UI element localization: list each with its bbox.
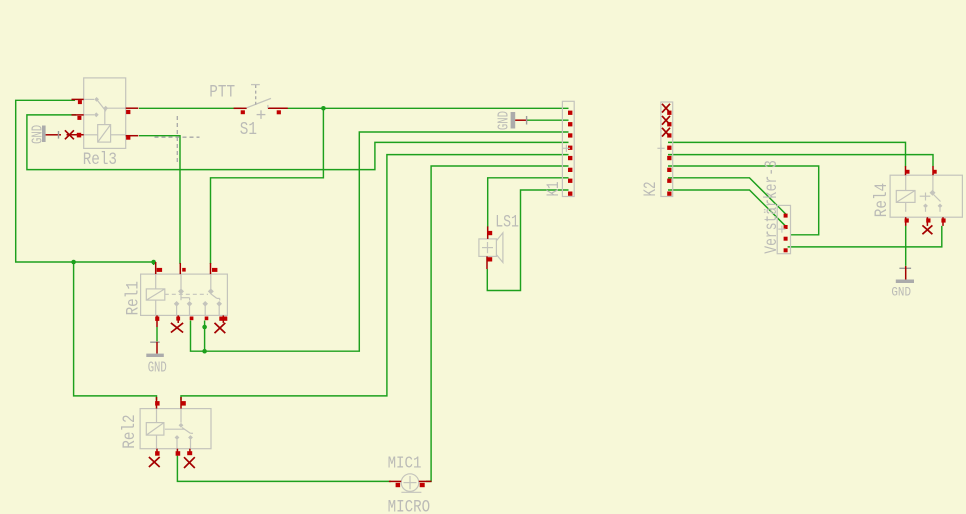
connector K1 pin 7 bbox=[568, 179, 572, 183]
unconnected marker X at Rel2 bottom pin3 bbox=[184, 457, 195, 468]
node junction at Rel1 pin1 bbox=[151, 260, 156, 265]
unconnected marker X at K2 pin3 bbox=[662, 128, 670, 137]
wire net N7: K1 pin7 left, down to LS1 top pin bbox=[488, 178, 569, 227]
svg-text:Rel1: Rel1 bbox=[123, 281, 143, 315]
connector K2 pin 2 bbox=[667, 122, 671, 126]
unconnected marker X at Rel1 bottom pin5 bbox=[215, 323, 226, 333]
svg-text:S1: S1 bbox=[240, 118, 257, 139]
K2 pin4 origin cross bbox=[657, 145, 664, 152]
svg-text:Rel4: Rel4 bbox=[872, 183, 892, 217]
Verstaerker-3 pin2 origin cross bbox=[778, 226, 785, 233]
node junction where pin4 wire meets N3 bbox=[202, 349, 207, 354]
relay Rel1 interior bbox=[156, 274, 222, 315]
label MIC1 bbox=[388, 454, 422, 473]
label Rel3 bbox=[83, 150, 117, 170]
svg-text:Rel2: Rel2 bbox=[119, 414, 139, 448]
ground GND left of Rel3 bbox=[42, 126, 61, 143]
relay Rel4 top pin1 bbox=[905, 166, 909, 175]
connector K1 pin 2 bbox=[568, 122, 572, 126]
relay Rel2 top pin2 bbox=[181, 397, 186, 409]
wire net GND: Rel4 bottom pin1 down to GND bbox=[905, 226, 907, 266]
wire net N4: K1 pin4 left, down, left, up to Rel3 pin B bbox=[27, 115, 569, 170]
wire net K2-4: K2 pin4 right, down to Rel4 top pin1 bbox=[668, 142, 906, 166]
connector K2 pin 1 bbox=[667, 111, 671, 115]
relay Rel2 bottom pin2 bbox=[176, 449, 181, 456]
K1 pin4 origin cross bbox=[563, 145, 570, 152]
wire net N10: Rel3 pin E right, down to Rel1 top pin2 bbox=[139, 136, 180, 264]
wire net N_PTT row1: S1 right pin to K1 pin1 bbox=[281, 107, 569, 109]
relay Rel2 top pin1 bbox=[155, 397, 160, 409]
label GND below Rel1 bbox=[148, 359, 167, 376]
wire net N_PTT: Rel3 pin D to S1 left pin bbox=[139, 107, 242, 109]
node junction at S1 output bbox=[321, 106, 326, 111]
relay Rel1 coil bbox=[146, 289, 165, 300]
unconnected marker X at Rel1 bottom pin2 bbox=[171, 323, 183, 333]
amplifier Verstaerker-3 pin 4 bbox=[784, 248, 788, 252]
wire net N3: K1 pin3 left, down, left to Rel1 bottom pin3 bbox=[191, 132, 569, 351]
amplifier Verstaerker-3 body bbox=[777, 205, 790, 253]
microphone MIC1 left pin bbox=[389, 481, 401, 487]
dashed line cross near Rel3 pin E bbox=[155, 116, 200, 163]
label PTT bbox=[209, 82, 235, 102]
wire net N2: GND cap to K1 pin2 bbox=[527, 119, 569, 121]
relay Rel4 bottom pin1 bbox=[905, 217, 909, 226]
relay Rel1 top pin2 bbox=[180, 263, 185, 274]
relay Rel1 bottom pin1 bbox=[155, 315, 159, 327]
relay Rel1 bottom pin5 bbox=[219, 315, 227, 323]
connector K1 body bbox=[562, 101, 574, 196]
connector K1 pin 4 bbox=[568, 146, 572, 150]
relay Rel1 bottom pin2 bbox=[176, 315, 180, 323]
connector K2 pin 4 bbox=[667, 146, 671, 150]
connector K1 pin 1 bbox=[568, 111, 572, 115]
relay Rel2 interior bbox=[157, 409, 194, 449]
unconnected marker X at K2 pin2 bbox=[662, 116, 670, 125]
wire net N_PTT branch: junction down, left, down to Rel1 top pin3 bbox=[211, 108, 324, 264]
connector K2 pin 8 bbox=[667, 192, 671, 196]
relay Rel3 pin A bbox=[72, 99, 84, 104]
wire net K2-6: K2 pin6 right, down, left to amplifier pin3 bbox=[668, 166, 819, 235]
relay Rel2 bottom pin3 bbox=[187, 449, 192, 456]
label LS1 bbox=[495, 212, 519, 232]
connector K2 pin 5 bbox=[667, 156, 671, 160]
ground GND below Rel1 bbox=[146, 327, 164, 357]
unconnected marker X at Rel4 bottom pin2 bbox=[922, 225, 932, 234]
microphone MIC1 body bbox=[401, 474, 421, 492]
wire net N5: K1 pin5 left, down, left to Rel2 top pin2 bbox=[181, 155, 569, 400]
wire net N13: Rel2 bottom pin2 down, right to MIC1 left pin bbox=[177, 456, 391, 482]
label GND at K1 bbox=[495, 111, 512, 130]
relay Rel3 pin C bbox=[67, 133, 84, 138]
switch S1 lever bbox=[247, 98, 271, 108]
svg-text:Rel3: Rel3 bbox=[83, 150, 117, 170]
svg-text:GND: GND bbox=[891, 285, 911, 300]
microphone MIC1 right pin bbox=[419, 481, 432, 487]
label Rel2 bbox=[119, 414, 139, 448]
connector K1 pin 6 bbox=[568, 168, 572, 172]
label Rel4 bbox=[872, 183, 892, 217]
relay Rel2 bottom pin1 bbox=[155, 449, 160, 456]
wire net N9: Rel3 pin A left, down, right to Rel1 top pin1 bbox=[16, 100, 154, 265]
switch S1 left pin bbox=[234, 108, 247, 114]
relay Rel1 top pin3 bbox=[211, 263, 218, 274]
ground GND with cap at K1 pin2 bbox=[511, 112, 528, 129]
amplifier Verstaerker-3 pin 1 bbox=[784, 214, 788, 218]
wire net N3 stub: Rel1 bottom pin4 down to N3 bbox=[204, 321, 206, 352]
svg-text:K1: K1 bbox=[543, 182, 564, 197]
svg-text:MICRO: MICRO bbox=[388, 497, 431, 514]
relay Rel4 interior bbox=[906, 175, 943, 212]
wire net K2-8: K2 pin8 right, diagonal to amplifier pin2 bbox=[668, 190, 786, 226]
relay Rel1 body bbox=[141, 274, 228, 315]
relay Rel3 pin D bbox=[126, 108, 139, 114]
wire net N6: K1 pin6 left, down to MIC1 right pin bbox=[426, 166, 569, 481]
speaker LS1 bottom pin bbox=[487, 256, 492, 269]
relay Rel4 top pin2 bbox=[933, 166, 937, 175]
unconnected marker X at Rel3 pin C bbox=[65, 130, 74, 139]
svg-text:GND: GND bbox=[495, 111, 512, 130]
relay Rel2 body bbox=[140, 409, 211, 449]
unconnected marker X at K2 pin1 bbox=[662, 104, 670, 113]
label K2 bbox=[640, 182, 661, 197]
svg-text:K2: K2 bbox=[640, 182, 661, 197]
relay Rel3 pin E bbox=[126, 136, 139, 140]
unconnected marker X at Rel2 bottom pin1 bbox=[149, 457, 160, 467]
relay Rel4 bottom pin2 bbox=[926, 217, 930, 226]
connector K1 pin 3 bbox=[568, 133, 572, 137]
svg-text:GND: GND bbox=[148, 359, 167, 376]
svg-text:GND: GND bbox=[29, 125, 46, 144]
relay Rel4 bottom pin3 bbox=[941, 217, 945, 226]
svg-text:PTT: PTT bbox=[209, 82, 235, 102]
connector K1 pin 8 bbox=[568, 192, 572, 196]
connector K2 pin 7 bbox=[667, 179, 671, 183]
connector K1 pin 5 bbox=[568, 156, 572, 160]
speaker LS1 body bbox=[479, 233, 503, 263]
label K1 bbox=[543, 182, 564, 197]
ground GND below Rel4 bbox=[896, 266, 914, 283]
wire net K2-7: K2 pin7 right, diagonal to amplifier pin1 bbox=[668, 178, 786, 214]
relay Rel1 top pin1 bbox=[156, 262, 162, 274]
label GND below Rel4 bbox=[891, 285, 911, 300]
switch S1 actuator bbox=[251, 85, 260, 105]
connector K2 body bbox=[661, 102, 673, 197]
label MICRO bbox=[388, 497, 431, 514]
switch S1 cross mark bbox=[257, 110, 266, 119]
relay Rel3 pin B bbox=[72, 115, 84, 120]
node junction on Rel1 pin4 wire bbox=[202, 325, 207, 330]
relay Rel1 bottom pin3 bbox=[190, 317, 194, 321]
amplifier Verstaerker-3 pin 2 bbox=[784, 225, 788, 229]
label S1 bbox=[240, 118, 257, 139]
label GND left bbox=[29, 125, 46, 144]
relay Rel2 coil bbox=[146, 423, 164, 436]
node junction on N9 bbox=[71, 260, 76, 265]
connector K2 pin 6 bbox=[667, 168, 671, 172]
connector K2 pin 3 bbox=[667, 133, 671, 137]
label Verstaerker-3 bbox=[761, 160, 781, 254]
relay Rel3 body bbox=[84, 78, 126, 148]
speaker LS1 top pin bbox=[487, 226, 492, 239]
amplifier Verstaerker-3 pin 3 bbox=[784, 237, 788, 241]
relay Rel4 body bbox=[890, 175, 962, 217]
svg-text:LS1: LS1 bbox=[495, 212, 519, 232]
wire net K2-5: K2 pin5 right, down to Rel4 top pin2 bbox=[668, 155, 933, 167]
wire net N9 branch: down to Rel2 top pin1 bbox=[74, 262, 157, 400]
svg-text:MIC1: MIC1 bbox=[388, 454, 422, 473]
relay Rel4 coil bbox=[896, 191, 915, 203]
relay Rel3 interior contacts bbox=[84, 97, 126, 135]
relay Rel1 bottom pin4 bbox=[205, 317, 209, 321]
relay Rel3 coil bbox=[98, 125, 111, 143]
wire net A4: amplifier pin4 right, up to Rel4 bottom pin3 bbox=[788, 226, 942, 247]
switch S1 right pin bbox=[268, 108, 288, 114]
label Rel1 bbox=[123, 281, 143, 315]
wire net N8: K1 pin8 left, down, left, up to LS1 bottom pin bbox=[487, 190, 568, 291]
svg-text:Verstärker-3: Verstärker-3 bbox=[761, 160, 781, 254]
